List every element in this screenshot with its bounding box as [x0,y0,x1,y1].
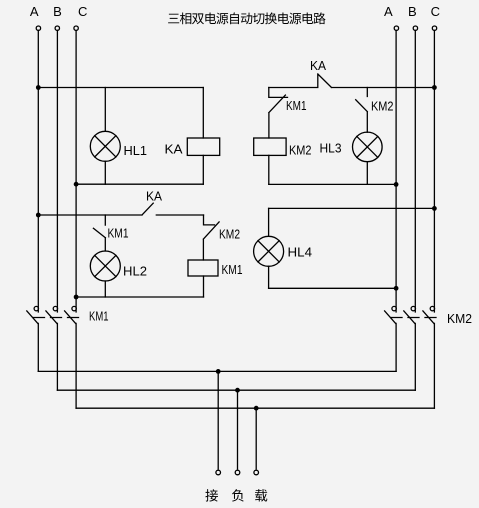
svg-text:KA: KA [310,58,326,73]
svg-text:HL1: HL1 [124,143,148,158]
svg-text:KM2: KM2 [219,227,240,242]
svg-text:KM1: KM1 [222,262,243,277]
svg-text:B: B [408,4,417,19]
svg-text:KM2: KM2 [289,143,312,158]
svg-text:KA: KA [165,142,183,157]
svg-text:A: A [30,4,39,19]
svg-text:KM2: KM2 [447,311,472,326]
svg-text:C: C [78,4,87,19]
svg-text:KM1: KM1 [108,226,129,241]
svg-text:C: C [431,4,440,19]
svg-text:HL2: HL2 [123,264,147,279]
svg-text:HL3: HL3 [320,141,342,156]
svg-text:KM2: KM2 [371,99,394,114]
svg-text:HL4: HL4 [288,245,313,260]
svg-text:KM1: KM1 [286,98,307,113]
svg-text:KA: KA [146,189,162,204]
svg-text:KM1: KM1 [89,309,109,324]
svg-text:B: B [53,4,62,19]
svg-text:A: A [384,4,393,19]
